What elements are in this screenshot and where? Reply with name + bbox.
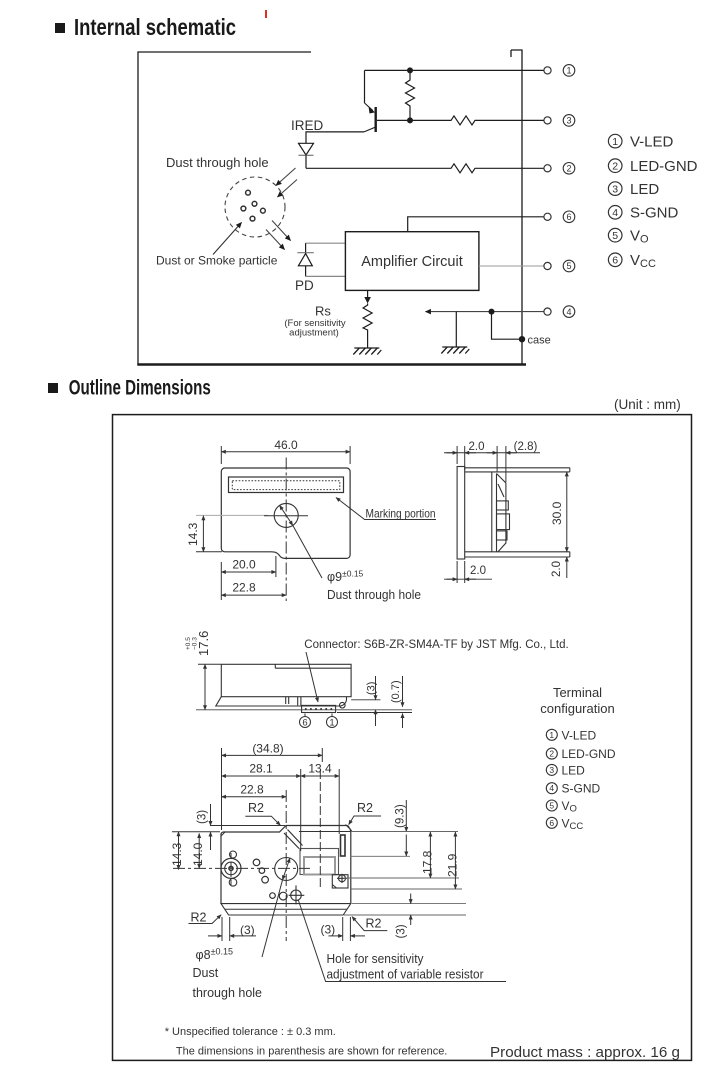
case branch	[492, 312, 523, 340]
svg-text:case: case	[528, 335, 551, 347]
dimension 22.8	[221, 594, 286, 596]
junction top	[407, 67, 413, 73]
svg-text:Amplifier Circuit: Amplifier Circuit	[361, 254, 463, 270]
small holes rear	[253, 859, 287, 900]
dimension 20.0	[221, 556, 276, 600]
svg-text:V-LED: V-LED	[562, 728, 597, 742]
middle view body	[216, 664, 351, 712]
svg-text:(2.8): (2.8)	[514, 441, 538, 453]
svg-text:S-GND: S-GND	[630, 205, 679, 222]
svg-text:(34.8): (34.8)	[252, 741, 283, 755]
svg-text:(3): (3)	[366, 682, 378, 695]
svg-text:(0.7): (0.7)	[390, 680, 402, 703]
dimension 17.6	[198, 664, 221, 710]
connector body bottom	[302, 705, 336, 712]
junction base	[407, 117, 413, 123]
svg-text:φ8±0.15: φ8±0.15	[196, 947, 234, 963]
dim 17.8	[344, 832, 459, 878]
dust hole circle (rear)	[275, 858, 298, 881]
pin terminals	[544, 67, 551, 315]
ground 2	[441, 347, 469, 354]
svg-text:Rs: Rs	[315, 304, 331, 319]
svg-text:5: 5	[566, 261, 571, 271]
dim (34.8)	[222, 748, 323, 830]
ground branch	[455, 312, 457, 347]
dust through hole dashed circle	[225, 177, 285, 237]
svg-text:R2: R2	[366, 917, 382, 931]
svg-text:Outline Dimensions: Outline Dimensions	[69, 377, 211, 400]
svg-text:1: 1	[329, 718, 334, 729]
pin 6 and 1 callouts	[300, 714, 338, 728]
recess rects	[300, 849, 339, 875]
phi8 leader	[262, 880, 283, 957]
phi9 diameter arrows	[280, 505, 293, 525]
svg-text:2.0: 2.0	[470, 565, 486, 577]
dimension (3) mid	[351, 676, 380, 726]
case dot	[519, 336, 525, 342]
PD photodiode	[297, 243, 345, 276]
wire V-LED top	[365, 69, 545, 71]
side view body	[457, 467, 570, 560]
svg-text:Dust or Smoke particle: Dust or Smoke particle	[156, 254, 278, 268]
svg-text:Connector: S6B-ZR-SM4A-TF by J: Connector: S6B-ZR-SM4A-TF by JST Mfg. Co…	[304, 639, 568, 651]
svg-text:20.0: 20.0	[232, 558, 256, 572]
svg-text:22.8: 22.8	[232, 581, 256, 595]
svg-text:Product mass : approx. 16 g: Product mass : approx. 16 g	[490, 1045, 680, 1061]
dim (3) bottom right rotated	[344, 894, 466, 926]
connector wall	[491, 472, 493, 552]
arrow from particle label to hole	[213, 223, 242, 255]
connector pins (mid view)	[305, 708, 333, 710]
wire S-GND (pin4) with left arrow	[426, 311, 545, 313]
resistor vertical	[406, 70, 415, 120]
svg-text:(3): (3)	[240, 923, 255, 937]
connector ticks	[286, 697, 301, 706]
svg-text:The dimensions in parenthesis: The dimensions in parenthesis are shown …	[176, 1046, 447, 1058]
svg-text:14.3: 14.3	[170, 842, 184, 866]
svg-text:LED-GND: LED-GND	[630, 158, 698, 175]
svg-text:2.0: 2.0	[551, 561, 563, 577]
svg-text:Hole for sensitivity: Hole for sensitivity	[327, 952, 425, 966]
ground under Rs	[353, 348, 381, 355]
svg-text:5: 5	[549, 801, 554, 811]
svg-text:6: 6	[302, 718, 307, 729]
svg-text:5: 5	[612, 230, 618, 242]
svg-text:6: 6	[549, 818, 554, 828]
svg-text:φ9±0.15: φ9±0.15	[327, 569, 364, 585]
svg-text:6: 6	[566, 212, 571, 222]
svg-text:21.9: 21.9	[446, 853, 460, 877]
wire Vcc (pin6)	[408, 217, 544, 232]
dim (3) top left	[210, 804, 285, 850]
svg-text:VO: VO	[562, 799, 577, 815]
svg-text:V-LED: V-LED	[630, 134, 674, 151]
svg-text:30.0: 30.0	[550, 501, 564, 525]
flange bottom	[216, 697, 347, 706]
dimension 2.0 bottom right	[566, 557, 568, 578]
dimension (0.7)	[337, 676, 412, 728]
svg-text:6: 6	[612, 255, 618, 267]
svg-text:LED: LED	[630, 181, 659, 198]
svg-text:(3): (3)	[321, 923, 336, 937]
svg-text:R2: R2	[248, 801, 264, 815]
svg-text:1: 1	[612, 136, 618, 148]
svg-text:(9.3): (9.3)	[395, 804, 407, 828]
rear bottom strip	[221, 904, 351, 915]
position mark square	[332, 874, 348, 888]
leader to connector	[306, 652, 318, 702]
dimension 14.3 (front)	[196, 516, 222, 552]
svg-text:adjustment): adjustment)	[289, 328, 339, 339]
junction on S-GND	[489, 309, 495, 315]
header: Outline Dimensions	[48, 377, 211, 400]
dust particles	[241, 190, 265, 221]
svg-text:2.0: 2.0	[469, 441, 485, 453]
svg-text:through hole: through hole	[193, 986, 263, 1000]
outline dimensions frame	[113, 415, 692, 1061]
connector profile	[497, 474, 506, 552]
sensitivity hole	[289, 885, 305, 904]
svg-text:Dust through hole: Dust through hole	[166, 155, 269, 170]
sensitivity leader	[298, 900, 506, 982]
svg-text:VCC: VCC	[630, 252, 656, 270]
wire Vo (pin5)	[479, 265, 544, 267]
radiation arrows IRED to hole	[276, 168, 297, 197]
svg-text:1: 1	[566, 66, 571, 76]
svg-text:LED: LED	[562, 763, 586, 777]
phi8 diameter arrows	[283, 858, 290, 880]
amplifier circuit U1	[345, 232, 479, 291]
svg-text:* Unspecified tolerance : ± 0.: * Unspecified tolerance : ± 0.3 mm.	[165, 1026, 336, 1038]
header: Internal schematic	[55, 14, 236, 40]
seating plane line	[196, 709, 412, 711]
center lines rear	[285, 790, 287, 941]
svg-text:1: 1	[549, 730, 554, 740]
dim 14.3 rear	[172, 832, 220, 870]
svg-text:VCC: VCC	[562, 816, 584, 832]
svg-text:28.1: 28.1	[249, 762, 273, 776]
pin legend	[608, 134, 622, 266]
svg-text:2: 2	[549, 749, 554, 759]
front view part outline	[221, 468, 350, 558]
wire collector to IRED	[306, 132, 364, 143]
svg-text:(3): (3)	[396, 924, 408, 938]
dust through hole circle (front)	[274, 503, 298, 527]
svg-text:4: 4	[612, 207, 618, 219]
pin numbers circled	[563, 65, 575, 318]
dim (3) bottom middle	[329, 917, 366, 941]
funnel diagonals	[284, 830, 303, 849]
svg-text:4: 4	[549, 783, 554, 793]
wire LED-GND (pin2) with resistor	[306, 164, 544, 173]
svg-text:−0.3: −0.3	[192, 637, 199, 650]
svg-text:13.4: 13.4	[308, 762, 332, 776]
dim 28.1	[222, 769, 301, 851]
dim (3) bottom left	[208, 917, 256, 941]
marking portion leader + label	[336, 498, 436, 520]
svg-text:VO: VO	[630, 228, 649, 246]
dim 21.9	[351, 832, 462, 890]
svg-text:S-GND: S-GND	[562, 782, 601, 796]
svg-text:14.0: 14.0	[191, 842, 205, 866]
rear view outline	[221, 825, 351, 903]
case outline box	[137, 50, 526, 365]
svg-text:46.0: 46.0	[274, 438, 298, 452]
svg-text:(Unit : mm): (Unit : mm)	[614, 397, 681, 412]
dim 14.0	[198, 834, 200, 869]
svg-text:Marking portion: Marking portion	[366, 507, 436, 521]
svg-text:Dust through hole: Dust through hole	[327, 588, 421, 602]
svg-text:17.8: 17.8	[421, 850, 435, 874]
svg-text:LED-GND: LED-GND	[562, 747, 616, 761]
dim 22.8 rear	[222, 796, 287, 798]
svg-text:PD: PD	[295, 278, 314, 293]
svg-text:Terminal: Terminal	[553, 685, 602, 700]
svg-text:2: 2	[612, 160, 618, 172]
center lines front	[196, 514, 268, 516]
right slot	[341, 835, 346, 856]
svg-text:3: 3	[566, 116, 571, 126]
Rs variable resistor	[363, 290, 372, 347]
svg-text:3: 3	[549, 765, 554, 775]
dimension 30.0	[566, 472, 568, 552]
svg-text:R2: R2	[191, 911, 207, 925]
phi9 leader	[293, 525, 322, 578]
svg-text:Internal schematic: Internal schematic	[74, 14, 236, 40]
resistor on LED line (pin3)	[448, 116, 544, 125]
svg-text:2: 2	[566, 164, 571, 174]
svg-text:14.3: 14.3	[186, 522, 200, 546]
IRED diode	[299, 143, 314, 168]
dim (9.3)	[351, 800, 410, 856]
left boss	[221, 851, 241, 886]
svg-text:configuration: configuration	[540, 701, 614, 716]
svg-text:22.8: 22.8	[240, 783, 264, 797]
radiation arrows hole to PD	[266, 221, 291, 250]
transistor Q1 (PNP)	[364, 70, 448, 132]
red tick mark	[265, 10, 267, 18]
svg-text:adjustment of variable resisto: adjustment of variable resistor	[327, 968, 484, 982]
dimension 2.0 bottom left	[444, 561, 492, 583]
svg-text:Dust: Dust	[193, 966, 219, 980]
dimension 46.0	[221, 446, 350, 464]
svg-text:R2: R2	[357, 801, 373, 815]
svg-text:3: 3	[612, 183, 618, 195]
marking portion rect	[229, 477, 344, 493]
svg-text:IRED: IRED	[291, 118, 324, 133]
terminal legend	[546, 729, 557, 828]
side view dims 2.0 (2.8)	[444, 446, 540, 482]
svg-text:4: 4	[566, 307, 571, 317]
svg-text:(3): (3)	[197, 810, 209, 824]
dim 13.4	[301, 769, 340, 834]
